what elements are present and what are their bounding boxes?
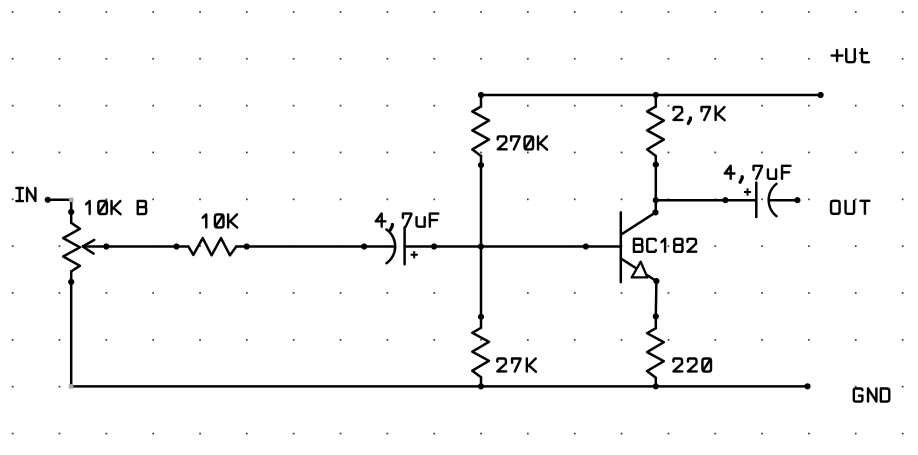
label 27K (497, 359, 536, 372)
label 4,7uF output cap value (725, 166, 791, 182)
wire 2,7K chain (655, 95, 658, 107)
wire 270K to main line (480, 156, 483, 317)
top rail +Ut (481, 94, 821, 97)
potentiometer wiper arrow (83, 240, 95, 254)
junction GND rail / 220 (653, 383, 659, 389)
label GND (854, 389, 889, 402)
label IN (16, 188, 35, 201)
wire IN lead (48, 200, 71, 212)
transistor Q1 base bar (620, 212, 623, 282)
wire main line to input cap (236, 245, 395, 248)
wire emitter to 220 (655, 281, 658, 328)
label +Ut (832, 49, 869, 62)
pin dot potentiometer bottom (68, 279, 74, 285)
transistor emitter arrow triangle (632, 262, 648, 278)
resistor 27K body (480, 317, 483, 328)
wire input cap to transistor base (405, 245, 621, 248)
wire 2,7K to collector (655, 156, 658, 212)
junction GND rail / 27K (478, 383, 484, 389)
label OUT (831, 201, 869, 214)
label BC182 (634, 239, 696, 252)
node OUT terminal dot (794, 197, 800, 203)
label 220 (673, 359, 711, 372)
GND rail (71, 385, 808, 388)
label 10K series resistor value (203, 214, 238, 227)
label 4,7uF input cap value (376, 214, 439, 230)
capacitor C 4,7uF input curved plate (387, 230, 396, 264)
pin dot base wire (583, 243, 589, 249)
pin dot R 2,7K bottom (653, 162, 659, 168)
capacitor C 4,7uF output straight plate (755, 183, 758, 217)
pin dot R 270K bottom (478, 162, 484, 168)
junction collector node (653, 197, 659, 203)
pin dot C 4,7uF input left (361, 243, 367, 249)
transistor emitter lead (622, 259, 657, 281)
pin dot C 4,7uF output left (722, 197, 728, 203)
resistor 270K body (472, 107, 489, 157)
wire output cap to OUT (769, 199, 798, 202)
transistor collector lead (622, 212, 656, 234)
output cap plus sign (744, 188, 751, 195)
pin dot R 220 top (653, 313, 659, 319)
input cap plus sign (411, 251, 418, 258)
label 10K B potentiometer value (86, 201, 146, 214)
pin dot R 10K left (173, 243, 179, 249)
pin dot R 10K right (244, 243, 250, 249)
pin dot R 27K top (478, 314, 484, 320)
resistor 220 body (647, 328, 664, 378)
node GND rail end (804, 383, 810, 389)
label 270K (498, 136, 547, 149)
resistor 2,7K body (647, 107, 664, 157)
wire collector node to output cap (656, 199, 757, 202)
junction +Ut rail / 270K (478, 92, 484, 98)
pin dot emitter (653, 278, 659, 284)
capacitor C 4,7uF output curved plate (769, 184, 777, 216)
corner handle at IN bend (69, 198, 74, 203)
potentiometer R 10K B body (70, 212, 73, 223)
node IN terminal dot (45, 197, 51, 203)
pin dot collector (652, 209, 658, 215)
capacitor C 4,7uF input straight plate (403, 227, 406, 264)
resistor 10K body (188, 238, 236, 255)
junction +Ut rail / 2,7K (653, 92, 659, 98)
pin dot potentiometer top (68, 209, 74, 215)
wire 270K vertical chain (480, 95, 483, 107)
wire main signal line left (106, 245, 188, 248)
wire pot bottom to GND rail (70, 282, 73, 386)
pin dot C 4,7uF input right (431, 243, 437, 249)
junction main line / divider (478, 243, 484, 249)
label 2,7K (674, 107, 725, 123)
pin dot potentiometer wiper (103, 243, 109, 249)
corner handle at GND rail left bend (69, 384, 74, 389)
node +Ut rail end (818, 92, 824, 98)
